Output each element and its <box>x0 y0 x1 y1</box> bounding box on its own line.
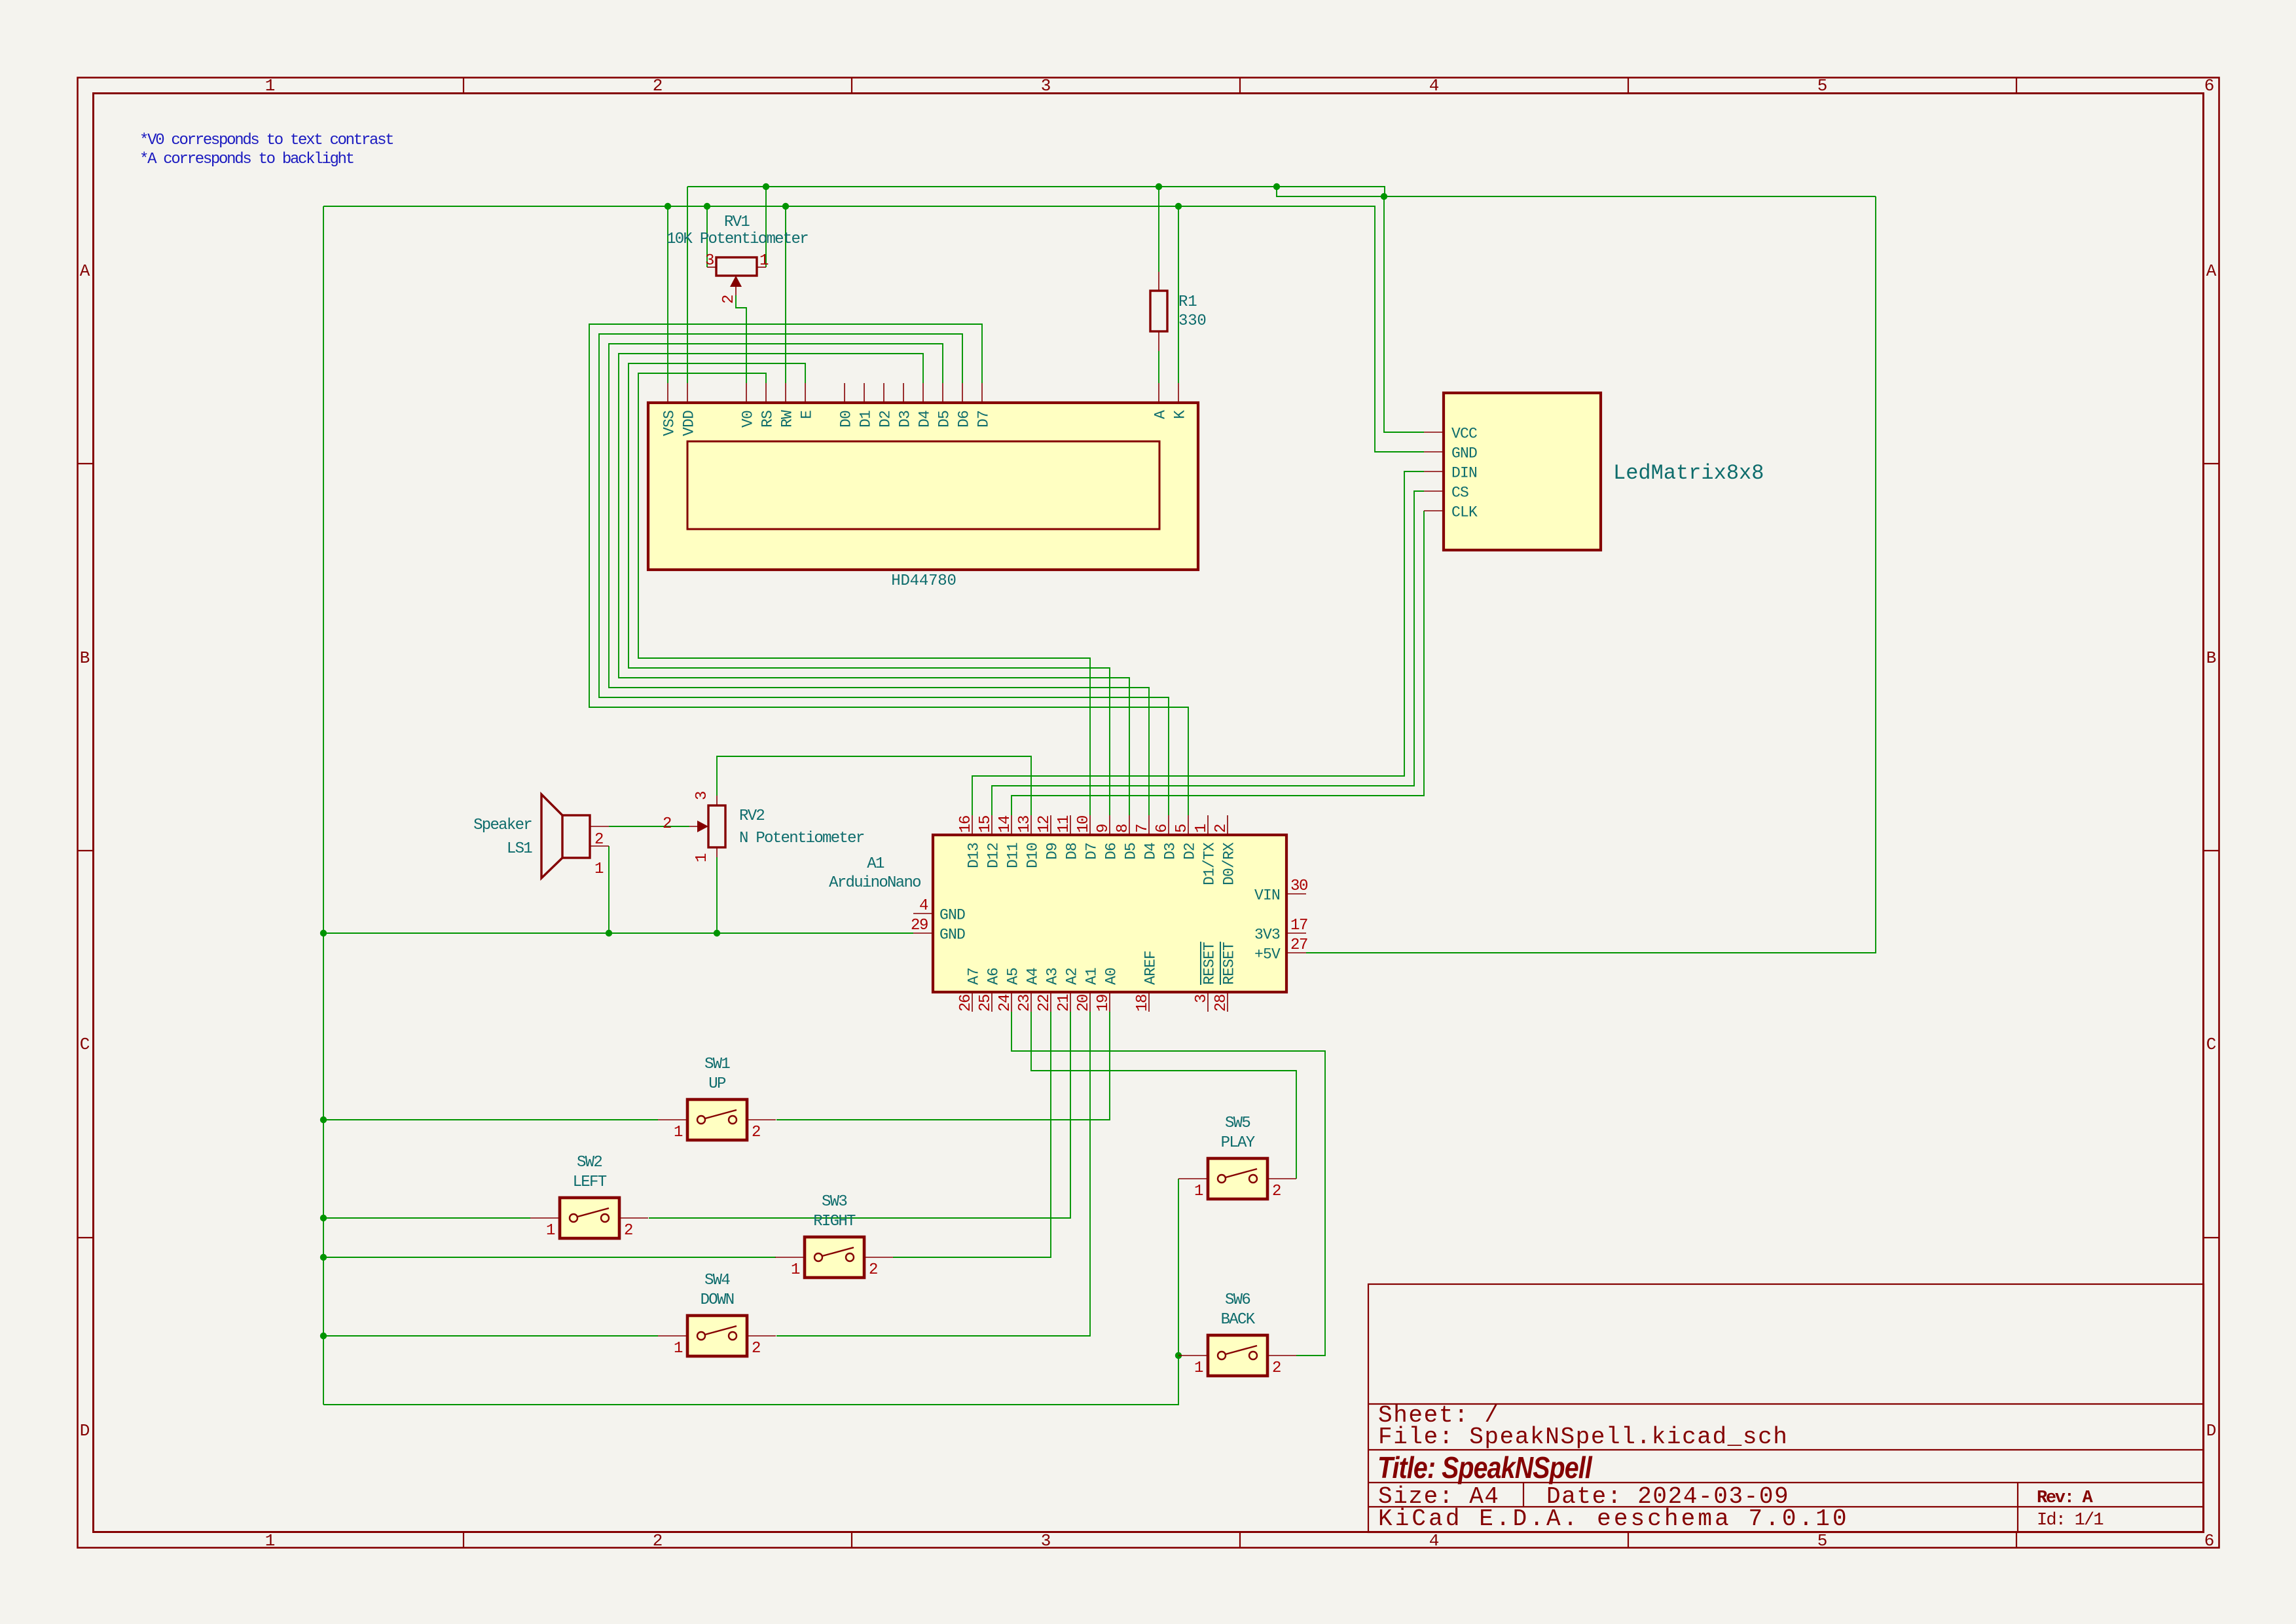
svg-text:KiCad E.D.A. eeschema 7.0.10: KiCad E.D.A. eeschema 7.0.10 <box>1378 1505 1850 1532</box>
svg-text:13: 13 <box>1016 816 1034 833</box>
LCD pin K <box>1178 383 1179 403</box>
svg-text:DOWN: DOWN <box>701 1291 734 1309</box>
svg-text:28: 28 <box>1212 995 1230 1012</box>
LCD module HD44780 body <box>648 403 1198 570</box>
svg-text:D4: D4 <box>917 411 934 428</box>
svg-text:CS: CS <box>1451 485 1468 502</box>
svg-text:RIGHT: RIGHT <box>813 1213 856 1230</box>
Arduino top pin 1 D1/TX <box>1207 815 1209 835</box>
svg-text:20: 20 <box>1075 995 1093 1012</box>
LCD pin D0 <box>844 383 845 403</box>
LCD pin E <box>805 383 806 403</box>
svg-text:D11: D11 <box>1005 843 1022 868</box>
svg-text:SW4: SW4 <box>704 1272 730 1289</box>
Arduino top pin 11 D8 <box>1070 815 1071 835</box>
LCD pin D6 <box>962 383 963 403</box>
wire R1 bottom to LCD A <box>1158 351 1159 383</box>
Arduino bottom pin 3 RESET <box>1207 992 1209 1012</box>
svg-text:RESET: RESET <box>1221 942 1238 985</box>
LCD pin D1 <box>864 383 865 403</box>
wire SW4 pin2 to Arduino A1 <box>776 1012 1090 1336</box>
svg-text:330: 330 <box>1178 312 1207 330</box>
svg-text:D: D <box>80 1421 90 1441</box>
svg-text:2: 2 <box>1272 1183 1281 1200</box>
frame column ticks bottom <box>463 1532 464 1548</box>
wire VDD riser <box>687 187 688 383</box>
svg-text:D1/TX: D1/TX <box>1201 842 1218 885</box>
svg-text:4: 4 <box>919 897 928 915</box>
svg-text:D6: D6 <box>1103 843 1120 860</box>
svg-text:2: 2 <box>869 1261 877 1279</box>
svg-text:2: 2 <box>653 76 663 96</box>
svg-text:D8: D8 <box>1064 843 1081 860</box>
LCD pin A <box>1158 383 1159 403</box>
svg-text:A: A <box>80 261 90 281</box>
svg-text:1: 1 <box>791 1261 800 1279</box>
svg-text:1: 1 <box>1193 824 1211 833</box>
svg-text:A3: A3 <box>1044 968 1061 985</box>
svg-text:3V3: 3V3 <box>1254 927 1280 944</box>
svg-text:SW6: SW6 <box>1225 1291 1250 1309</box>
wire RV2 pin1 drop <box>716 857 718 933</box>
wire LCD D5 to Arduino D4 <box>609 344 1149 815</box>
svg-text:5: 5 <box>1817 1531 1827 1551</box>
Arduino bottom pin 20 A1 <box>1089 992 1091 1012</box>
svg-text:D4: D4 <box>1142 843 1159 860</box>
wire LedMatrix VCC branch <box>1384 196 1424 432</box>
wire K riser <box>1178 206 1179 383</box>
wire RV1 pin1 riser <box>765 187 767 267</box>
svg-text:2: 2 <box>594 831 603 849</box>
wire bottom GND run to SW5/SW6 <box>323 1179 1178 1405</box>
svg-text:2: 2 <box>624 1222 632 1240</box>
svg-text:HD44780: HD44780 <box>891 572 956 590</box>
svg-text:D6: D6 <box>956 411 973 428</box>
svg-text:V0: V0 <box>740 411 757 428</box>
wire GND rail <box>323 206 1424 452</box>
svg-text:RESET: RESET <box>1201 942 1218 985</box>
wire speaker pin1 drop <box>608 846 610 933</box>
LCD pin D4 <box>922 383 924 403</box>
Arduino bottom pin 26 A7 <box>972 992 973 1012</box>
wire SW3 pin2 to Arduino A3 <box>893 1012 1051 1257</box>
frame row ticks left <box>78 463 94 464</box>
svg-text:26: 26 <box>957 995 975 1012</box>
wire LCD D4 to Arduino D5 <box>619 354 1129 815</box>
svg-text:D0: D0 <box>838 411 855 428</box>
svg-text:1: 1 <box>265 76 275 96</box>
svg-text:+5V: +5V <box>1254 946 1281 963</box>
svg-text:2: 2 <box>752 1124 760 1141</box>
LCD pin RW <box>785 383 786 403</box>
svg-text:UP: UP <box>708 1075 726 1093</box>
svg-text:A: A <box>1152 410 1169 419</box>
LED matrix pin GND <box>1424 451 1444 452</box>
svg-text:29: 29 <box>911 917 928 934</box>
svg-text:A0: A0 <box>1103 968 1120 985</box>
svg-text:K: K <box>1172 410 1189 419</box>
wire Arduino D11 to LedMatrix CLK <box>1011 511 1424 815</box>
speaker LS1 symbol <box>562 815 590 858</box>
svg-text:RS: RS <box>759 411 776 428</box>
svg-text:D: D <box>2206 1421 2216 1441</box>
wire VSS riser <box>667 206 668 383</box>
svg-text:SW2: SW2 <box>577 1154 602 1172</box>
Arduino top pin 12 D9 <box>1050 815 1051 835</box>
svg-text:LS1: LS1 <box>507 840 532 858</box>
LED matrix pin CLK <box>1424 510 1444 511</box>
wire R1 top riser <box>1158 187 1159 272</box>
svg-text:17: 17 <box>1290 917 1307 934</box>
Arduino right pin 27 +5V <box>1286 952 1306 953</box>
potentiometer RV2 <box>716 796 718 805</box>
wire RV1 pin3 riser <box>706 206 708 267</box>
wire Arduino D13 to LedMatrix DIN <box>972 471 1424 815</box>
svg-text:VCC: VCC <box>1451 426 1477 443</box>
LCD pin V0 <box>746 383 747 403</box>
wire SW6 pin2 to Arduino A5 <box>1011 1012 1325 1356</box>
svg-text:30: 30 <box>1290 877 1307 895</box>
svg-text:D2: D2 <box>1182 843 1199 860</box>
svg-text:1: 1 <box>674 1124 683 1141</box>
wire speaker pin2 to RV2 wiper <box>609 826 689 827</box>
svg-text:SW1: SW1 <box>704 1056 730 1073</box>
switch SW3 RIGHT <box>775 1257 805 1258</box>
svg-text:LedMatrix8x8: LedMatrix8x8 <box>1613 461 1764 485</box>
svg-text:D7: D7 <box>975 411 993 428</box>
svg-text:SW3: SW3 <box>822 1193 847 1211</box>
LCD pin VDD <box>687 383 688 403</box>
LCD pin D7 <box>981 383 983 403</box>
svg-text:D13: D13 <box>966 843 983 868</box>
svg-text:A6: A6 <box>985 968 1002 985</box>
svg-text:D7: D7 <box>1084 843 1101 860</box>
svg-text:16: 16 <box>957 816 975 833</box>
MCU module A1 ArduinoNano body <box>933 835 1286 992</box>
svg-text:D0/RX: D0/RX <box>1221 842 1238 885</box>
Arduino right pin 30 VIN <box>1286 893 1306 895</box>
svg-text:2: 2 <box>1212 824 1230 833</box>
svg-text:10K Potentiometer: 10K Potentiometer <box>666 231 808 248</box>
resistor R1 <box>1158 272 1159 291</box>
svg-text:25: 25 <box>977 995 994 1012</box>
wire Arduino D10 to RV2 pin3 <box>717 756 1031 815</box>
svg-text:A7: A7 <box>966 968 983 985</box>
LCD pin RS <box>765 383 767 403</box>
LCD pin D5 <box>942 383 943 403</box>
svg-text:1: 1 <box>594 860 604 878</box>
frame column ticks top <box>463 78 464 94</box>
svg-text:3: 3 <box>693 792 711 800</box>
svg-text:10: 10 <box>1075 816 1093 833</box>
svg-text:19: 19 <box>1095 995 1112 1012</box>
svg-text:Rev: A: Rev: A <box>2037 1488 2094 1508</box>
svg-text:3: 3 <box>1041 76 1051 96</box>
svg-text:RW: RW <box>779 410 796 428</box>
svg-text:4: 4 <box>1429 76 1439 96</box>
switch SW4 DOWN <box>658 1335 687 1337</box>
switch SW6 BACK <box>1178 1355 1208 1356</box>
svg-text:1: 1 <box>1194 1183 1203 1200</box>
wire SW2 pin2 to Arduino A2 <box>649 1012 1070 1218</box>
Arduino top pin 16 D13 <box>972 815 973 835</box>
svg-text:A1: A1 <box>1084 968 1101 985</box>
svg-text:5: 5 <box>1173 824 1191 833</box>
wire +5V rail top <box>687 187 1385 196</box>
wire RV1 wiper to LCD V0 <box>736 295 746 383</box>
wire LCD D7 to Arduino D2 <box>589 324 1188 815</box>
Arduino top pin 2 D0/RX <box>1227 815 1228 835</box>
switch SW2 LEFT <box>530 1217 560 1219</box>
LCD pin D2 <box>883 383 884 403</box>
LCD pin VSS <box>667 383 668 403</box>
wire LCD D6 to Arduino D3 <box>599 334 1169 815</box>
svg-text:VIN: VIN <box>1254 887 1280 904</box>
svg-text:GND: GND <box>939 907 965 924</box>
svg-text:24: 24 <box>996 994 1014 1012</box>
svg-text:6: 6 <box>2204 1531 2214 1551</box>
svg-text:8: 8 <box>1114 824 1132 833</box>
svg-text:3: 3 <box>1193 995 1211 1003</box>
wire SW4 row left <box>323 1335 658 1337</box>
svg-text:ArduinoNano: ArduinoNano <box>829 874 920 892</box>
svg-text:A4: A4 <box>1025 968 1042 985</box>
svg-text:A: A <box>2206 261 2217 281</box>
svg-text:6: 6 <box>1154 824 1171 833</box>
svg-text:B: B <box>2206 648 2216 668</box>
svg-text:GND: GND <box>939 927 965 944</box>
svg-text:23: 23 <box>1016 995 1034 1012</box>
wire +5V rail jog <box>1277 187 1876 196</box>
svg-text:D5: D5 <box>936 411 953 428</box>
svg-text:A5: A5 <box>1005 968 1022 985</box>
svg-text:7: 7 <box>1134 824 1152 833</box>
Arduino top pin 13 D10 <box>1030 815 1032 835</box>
Arduino left pin 4 GND <box>913 913 933 914</box>
Arduino bottom pin 21 A2 <box>1070 992 1071 1012</box>
svg-text:5: 5 <box>1817 76 1827 96</box>
svg-text:C: C <box>2206 1035 2216 1054</box>
wire Arduino D12 to LedMatrix CS <box>992 491 1424 815</box>
svg-text:N Potentiometer: N Potentiometer <box>739 830 864 847</box>
svg-text:D9: D9 <box>1044 843 1061 860</box>
svg-text:2: 2 <box>653 1531 663 1551</box>
LED matrix pin DIN <box>1424 471 1444 472</box>
svg-text:D3: D3 <box>1162 843 1179 860</box>
svg-text:2: 2 <box>1272 1359 1281 1377</box>
svg-text:GND: GND <box>1451 445 1477 462</box>
svg-text:*A corresponds to backlight: *A corresponds to backlight <box>139 151 354 168</box>
svg-text:File: SpeakNSpell.kicad_sch: File: SpeakNSpell.kicad_sch <box>1378 1424 1789 1450</box>
svg-text:1: 1 <box>759 252 769 270</box>
svg-text:E: E <box>799 411 816 419</box>
svg-text:Speaker: Speaker <box>473 817 532 834</box>
Arduino bottom pin 25 A6 <box>991 992 993 1012</box>
Arduino top pin 8 D5 <box>1129 815 1130 835</box>
svg-text:14: 14 <box>996 815 1014 833</box>
Arduino bottom pin 19 A0 <box>1109 992 1110 1012</box>
Arduino top pin 9 D6 <box>1109 815 1110 835</box>
svg-text:DIN: DIN <box>1451 465 1477 482</box>
wire SW1 pin2 to Arduino A0 <box>776 1012 1110 1120</box>
wire SW5 pin2 to Arduino A4 <box>1031 1012 1296 1179</box>
svg-text:2: 2 <box>663 815 671 833</box>
svg-text:B: B <box>80 648 90 668</box>
Arduino bottom pin 24 A5 <box>1011 992 1012 1012</box>
svg-text:1: 1 <box>693 853 711 862</box>
Arduino top pin 14 D11 <box>1011 815 1012 835</box>
svg-text:VDD: VDD <box>681 411 698 436</box>
LED matrix pin VCC <box>1424 432 1444 433</box>
svg-text:Title: SpeakNSpell: Title: SpeakNSpell <box>1377 1451 1593 1485</box>
LED matrix module body <box>1444 393 1601 550</box>
wire SW2 row left <box>323 1217 530 1219</box>
Arduino bottom pin 22 A3 <box>1050 992 1051 1012</box>
svg-text:D3: D3 <box>897 411 914 428</box>
svg-text:RV2: RV2 <box>739 807 764 825</box>
svg-text:D1: D1 <box>858 411 875 428</box>
svg-text:D12: D12 <box>985 843 1002 868</box>
svg-text:11: 11 <box>1055 815 1073 833</box>
svg-text:27: 27 <box>1290 936 1307 954</box>
Arduino top pin 10 D7 <box>1089 815 1091 835</box>
Arduino top pin 5 D2 <box>1188 815 1189 835</box>
svg-text:A2: A2 <box>1064 968 1081 985</box>
wire SW1 row left <box>323 1119 658 1120</box>
LCD pin D3 <box>903 383 904 403</box>
svg-text:18: 18 <box>1134 995 1152 1012</box>
LED matrix pin CS <box>1424 490 1444 492</box>
switch SW1 UP <box>658 1119 687 1120</box>
potentiometer RV1 <box>707 267 716 268</box>
svg-text:Id: 1/1: Id: 1/1 <box>2037 1511 2103 1530</box>
svg-text:15: 15 <box>977 816 994 833</box>
svg-text:9: 9 <box>1095 824 1112 833</box>
svg-text:1: 1 <box>265 1531 275 1551</box>
Arduino left pin 29 GND <box>913 932 933 934</box>
wire LCD E to Arduino D6 <box>629 363 1110 815</box>
svg-text:3: 3 <box>1041 1531 1051 1551</box>
svg-text:2: 2 <box>720 295 738 304</box>
svg-text:CLK: CLK <box>1451 504 1478 521</box>
svg-text:D5: D5 <box>1123 843 1140 860</box>
svg-text:C: C <box>80 1035 90 1054</box>
frame row ticks right <box>2204 463 2219 464</box>
title block title text <box>1377 1451 1593 1485</box>
Arduino top pin 15 D12 <box>991 815 993 835</box>
wire RW riser <box>785 206 786 383</box>
svg-text:22: 22 <box>1036 995 1053 1012</box>
wire +5V right drop to Arduino pin27 <box>1306 196 1876 953</box>
svg-text:R1: R1 <box>1178 293 1197 311</box>
Arduino top pin 6 D3 <box>1168 815 1169 835</box>
svg-text:1: 1 <box>546 1222 555 1240</box>
title block frame <box>1368 1284 2204 1532</box>
svg-text:A1: A1 <box>867 855 884 873</box>
svg-text:21: 21 <box>1055 994 1073 1012</box>
svg-text:LEFT: LEFT <box>573 1173 607 1191</box>
Arduino bottom pin 18 AREF <box>1148 992 1150 1012</box>
svg-text:BACK: BACK <box>1221 1311 1256 1329</box>
LCD screen inner rectangle <box>687 441 1159 529</box>
svg-text:D10: D10 <box>1025 843 1042 868</box>
Arduino bottom pin 23 A4 <box>1030 992 1032 1012</box>
svg-text:6: 6 <box>2204 76 2214 96</box>
svg-text:PLAY: PLAY <box>1221 1134 1255 1152</box>
wire LCD RS to Arduino D7 <box>638 373 1090 815</box>
switch SW5 PLAY <box>1178 1178 1208 1179</box>
wire GND row to Arduino pin29 <box>323 932 913 934</box>
svg-text:2: 2 <box>752 1340 760 1357</box>
wire GND left trunk <box>323 206 324 1405</box>
svg-text:AREF: AREF <box>1142 951 1159 985</box>
Arduino bottom pin 28 RESET <box>1227 992 1228 1012</box>
svg-text:RV1: RV1 <box>724 213 750 231</box>
wire SW3 row left <box>323 1257 776 1258</box>
Arduino top pin 7 D4 <box>1148 815 1150 835</box>
svg-text:SW5: SW5 <box>1225 1115 1250 1132</box>
junction dots <box>763 183 769 190</box>
Arduino right pin 17 3V3 <box>1286 932 1306 934</box>
svg-text:VSS: VSS <box>661 411 678 436</box>
svg-text:1: 1 <box>1194 1359 1203 1377</box>
svg-text:3: 3 <box>705 252 714 270</box>
svg-text:4: 4 <box>1429 1531 1439 1551</box>
svg-text:1: 1 <box>674 1340 683 1357</box>
svg-text:*V0 corresponds to text contra: *V0 corresponds to text contrast <box>139 132 393 149</box>
svg-text:D2: D2 <box>877 411 894 428</box>
svg-text:12: 12 <box>1036 816 1053 833</box>
